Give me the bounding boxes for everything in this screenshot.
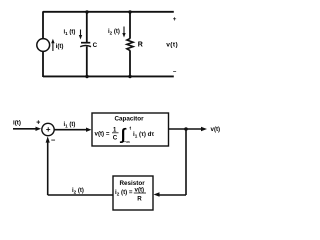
equation v(t) = 1/C integral	[95, 125, 155, 145]
wire capacitor branch upper	[86, 12, 88, 42]
svg-text:i2 (t): i2 (t)	[108, 29, 120, 36]
svg-text:i(t): i(t)	[13, 119, 21, 126]
resistor R	[127, 39, 133, 51]
svg-text:−: −	[173, 70, 177, 76]
svg-text:i2 (t): i2 (t)	[72, 188, 84, 195]
current arrow i2(t)	[122, 27, 125, 38]
current source i(t)	[37, 39, 50, 52]
equation i2(t) = v(t)/R	[115, 186, 146, 202]
resistor block U2	[113, 176, 153, 210]
junction dot C top	[85, 10, 88, 13]
svg-text:−: −	[51, 136, 56, 145]
node v(t) junction dot	[184, 127, 188, 131]
wire feedback into resistor block	[154, 192, 187, 196]
svg-text:v(t): v(t)	[211, 126, 221, 133]
svg-text:+: +	[46, 125, 51, 134]
svg-text:i(t): i(t)	[56, 43, 64, 50]
svg-text:i1 (t): i1 (t)	[64, 29, 76, 36]
junction dot R bottom	[128, 75, 131, 78]
svg-text:C: C	[93, 42, 98, 49]
summing junction	[42, 123, 54, 135]
svg-text:R: R	[138, 41, 143, 48]
svg-text:i1 (t): i1 (t)	[64, 122, 76, 129]
svg-text:Capacitor: Capacitor	[115, 116, 145, 123]
wire output v(t)	[169, 127, 208, 131]
wire feedback right riser	[185, 129, 187, 195]
wire summer to capacitor block	[54, 128, 92, 132]
wire resistor output i2	[48, 194, 113, 196]
wire top bus	[43, 11, 174, 13]
wire left branch lower	[42, 51, 44, 77]
svg-text:v(t): v(t)	[135, 186, 145, 193]
junction dot R top	[128, 10, 131, 13]
capacitor block U1	[92, 113, 169, 146]
current arrow i1(t)	[79, 30, 82, 40]
wire resistor branch upper	[129, 12, 131, 39]
svg-text:v(t): v(t)	[166, 42, 178, 49]
wire capacitor branch lower	[86, 47, 88, 78]
svg-text:R: R	[137, 195, 142, 202]
junction dot C bottom	[85, 75, 88, 78]
svg-text:v(t) =: v(t) =	[95, 131, 110, 138]
wire left branch upper	[42, 11, 44, 39]
capacitor C	[80, 43, 91, 47]
svg-text:C: C	[113, 135, 118, 142]
wire feedback left riser arrow	[46, 136, 50, 195]
svg-text:+: +	[173, 16, 177, 23]
wire input arrow	[13, 127, 41, 131]
wire resistor branch lower	[129, 50, 131, 77]
current source reference arrow	[51, 39, 54, 51]
svg-text:+: +	[36, 120, 40, 127]
wire bottom bus	[43, 75, 174, 77]
svg-text:−∞: −∞	[124, 141, 131, 146]
